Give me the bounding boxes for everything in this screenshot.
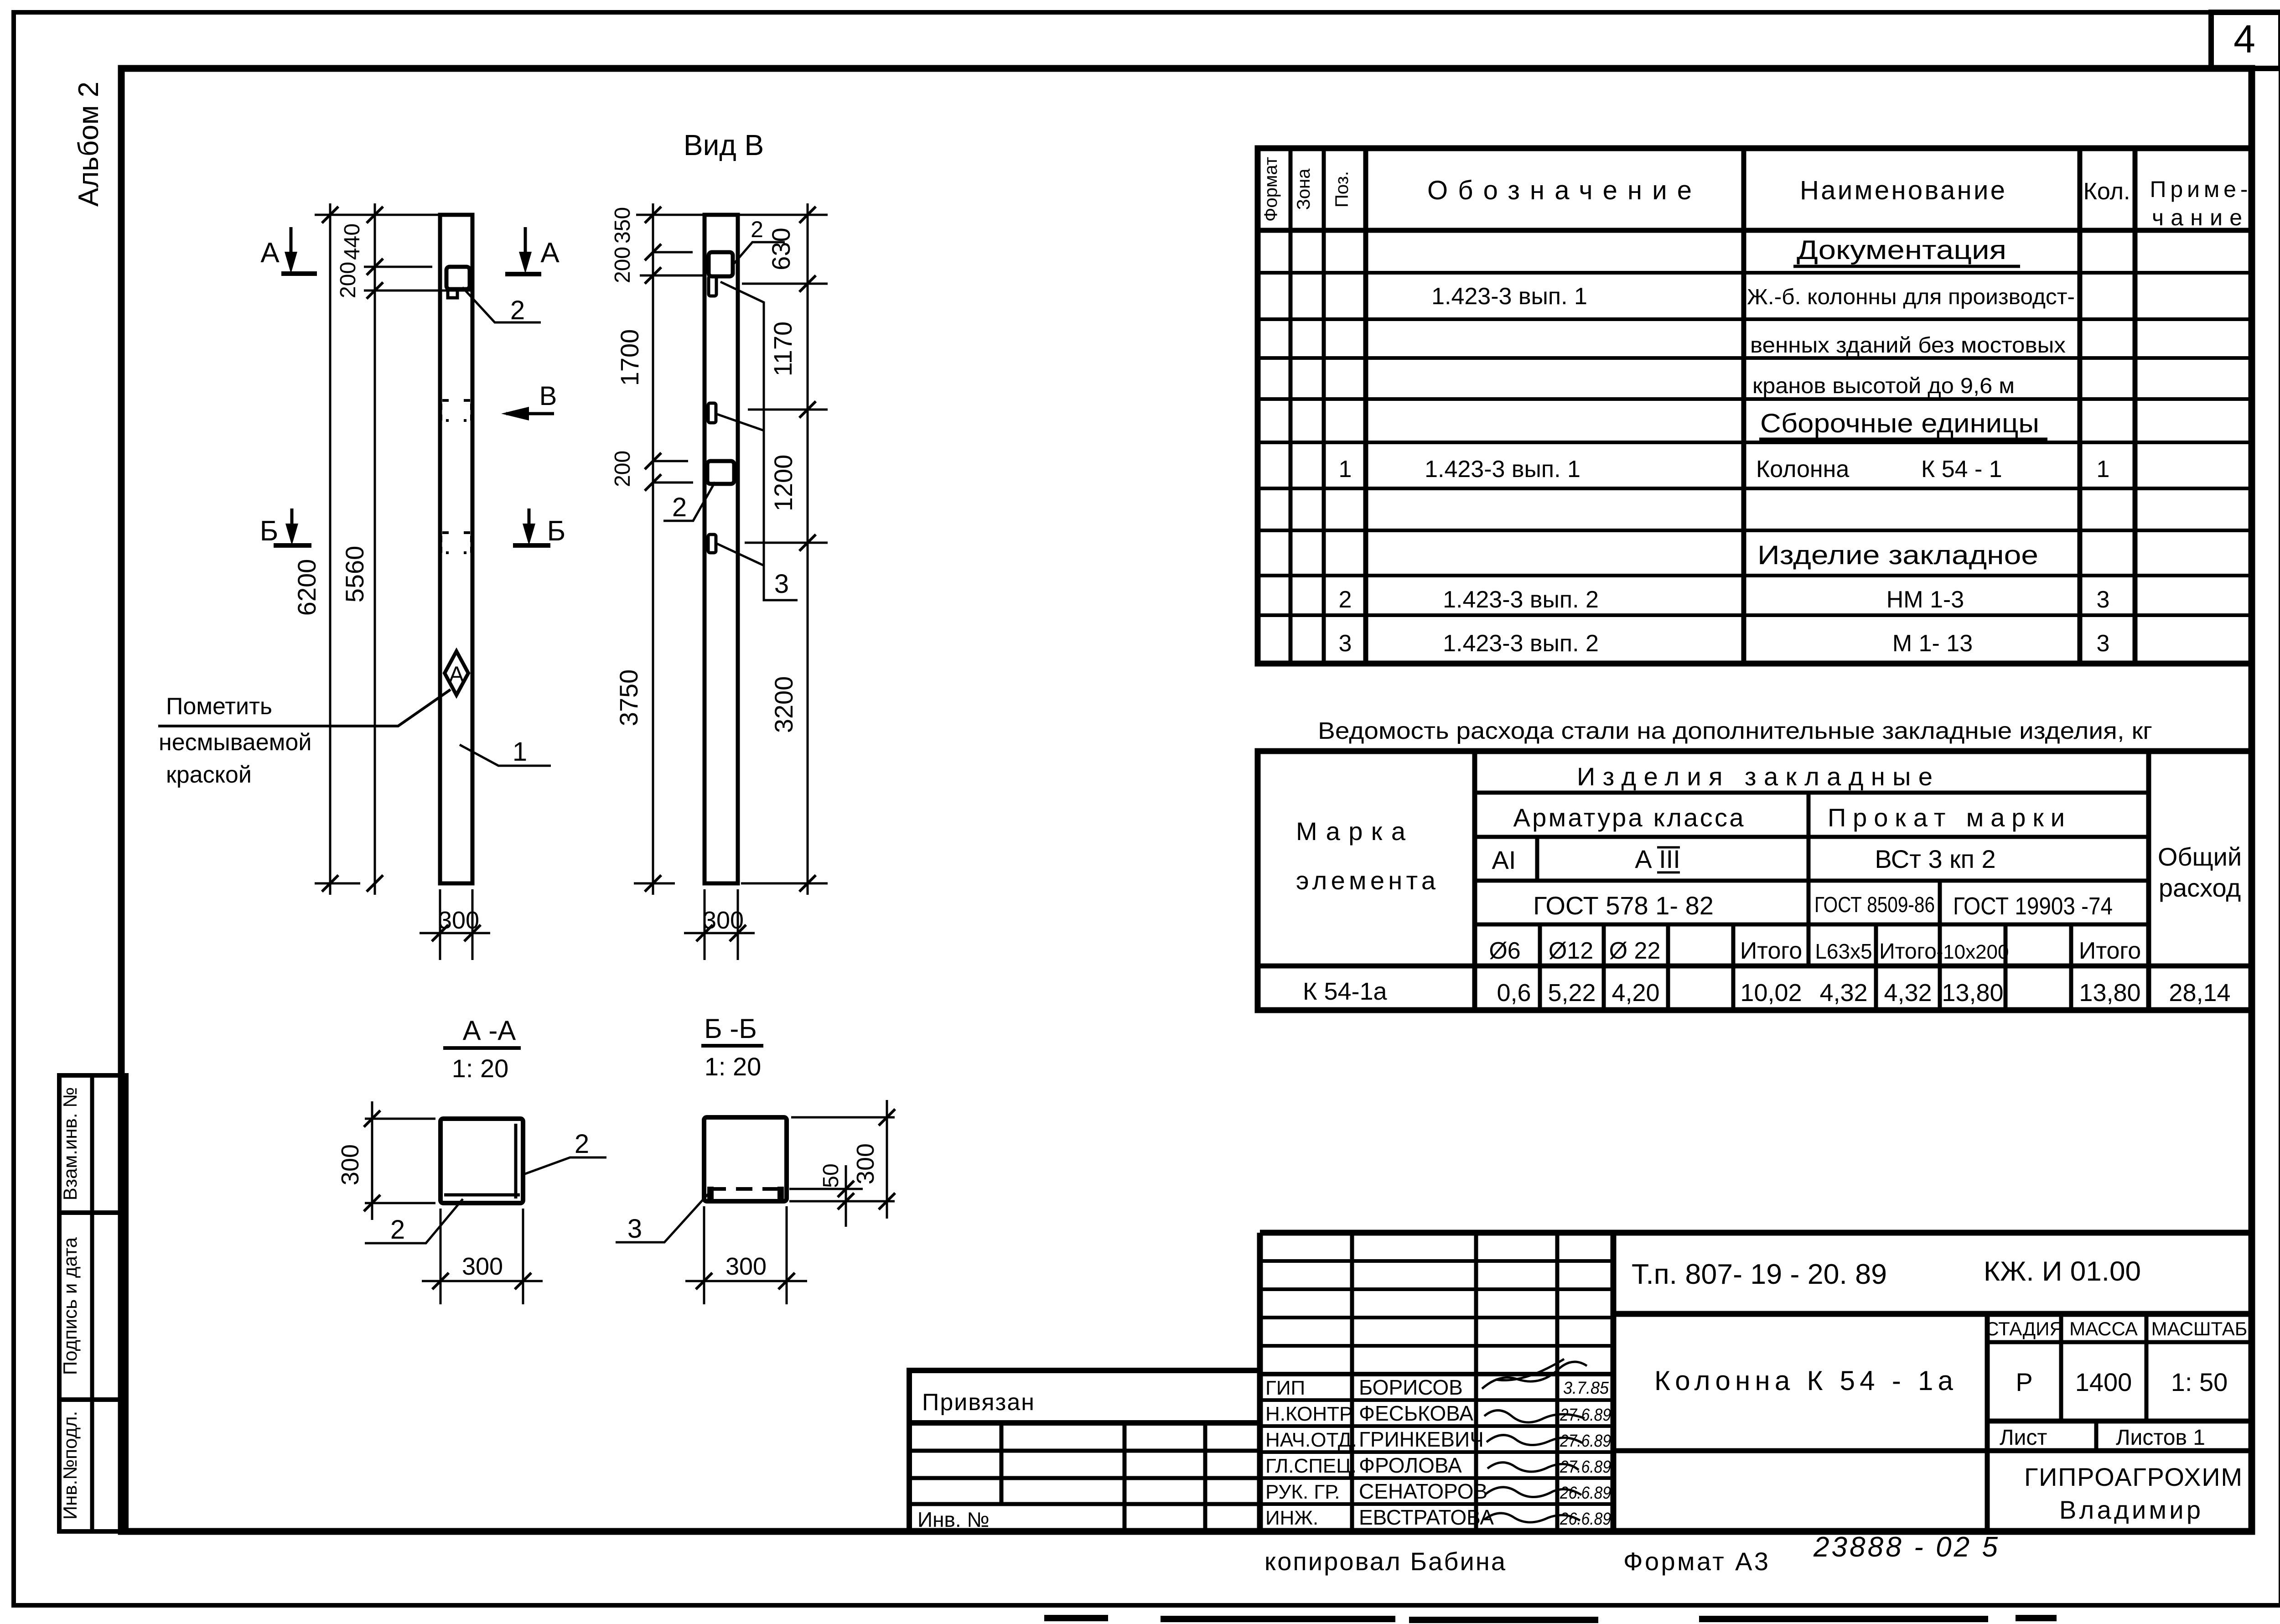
svg-text:6200: 6200 xyxy=(292,559,321,616)
svg-text:Наименование: Наименование xyxy=(1800,176,2005,205)
svg-text:МАССА: МАССА xyxy=(2069,1318,2138,1339)
svg-text:200: 200 xyxy=(336,262,360,298)
svg-text:ГИП: ГИП xyxy=(1265,1377,1305,1399)
svg-text:3: 3 xyxy=(627,1214,642,1244)
main divider xyxy=(1611,1233,1617,1531)
svg-text:3: 3 xyxy=(774,569,789,599)
svg-text:27.6.89: 27.6.89 xyxy=(1560,1458,1611,1477)
long leader line to label 3 xyxy=(720,282,798,600)
svg-text:3: 3 xyxy=(2097,586,2110,613)
B-B leader label 3 xyxy=(616,1194,708,1242)
svg-text:ГОСТ 578 1- 82: ГОСТ 578 1- 82 xyxy=(1533,891,1714,920)
B-B right dim line 300 xyxy=(886,1100,888,1219)
svg-text:300: 300 xyxy=(852,1143,879,1184)
bottom width dim line 300 xyxy=(420,932,490,934)
obshchiy raskhod divider xyxy=(2146,751,2151,1010)
svg-text:К 54-1а: К 54-1а xyxy=(1303,978,1388,1005)
svg-text:А: А xyxy=(540,237,560,269)
quality mark diamond A xyxy=(158,651,468,726)
bottom width extension lines xyxy=(439,889,441,960)
B-B bottom dim line 300 xyxy=(685,1280,807,1282)
svg-text:Листов 1: Листов 1 xyxy=(2116,1426,2205,1450)
tick top 5560 xyxy=(367,207,383,223)
B-B 50 dim line xyxy=(845,1165,847,1227)
svg-text:Формат: Формат xyxy=(1261,157,1281,222)
B-B right extension lines xyxy=(791,1116,895,1119)
tick 440 xyxy=(367,259,383,275)
header line AI AIII xyxy=(1475,879,2149,883)
leader to label 1 xyxy=(460,745,551,766)
top dimension line xyxy=(315,214,474,216)
data row top line xyxy=(1258,964,2251,969)
strip divider vertical xyxy=(90,1075,94,1531)
mark 350 xyxy=(653,251,693,254)
angle plate horizontal leg A-A xyxy=(444,1193,520,1197)
strip divider 1 xyxy=(59,1210,126,1215)
svg-text:4,32: 4,32 xyxy=(1819,979,1867,1007)
svg-text:МАСШТАБ: МАСШТАБ xyxy=(2151,1318,2248,1339)
spec col oboznachenie xyxy=(1741,148,1746,664)
svg-text:1.423-3 вып. 2: 1.423-3 вып. 2 xyxy=(1443,630,1599,657)
spec col poz xyxy=(1363,148,1368,664)
svg-text:расход: расход xyxy=(2159,873,2241,902)
leader to label 2 xyxy=(462,287,541,322)
tick 200 xyxy=(367,282,383,299)
svg-text:ГОСТ 8509-86: ГОСТ 8509-86 xyxy=(1814,893,1935,917)
svg-text:5,22: 5,22 xyxy=(1548,979,1596,1007)
left margin strip xyxy=(59,1075,126,1531)
embedded plate 2 mid view2 xyxy=(707,461,734,484)
mark line 200 xyxy=(364,290,472,292)
paint note text xyxy=(159,693,311,788)
svg-text:краской: краской xyxy=(166,762,252,788)
svg-text:несмываемой: несмываемой xyxy=(159,729,311,756)
svg-text:50: 50 xyxy=(819,1163,843,1188)
svg-text:Итого: Итого xyxy=(2079,938,2141,964)
spec row lines xyxy=(1258,271,2252,275)
svg-text:Ø 22: Ø 22 xyxy=(1609,938,1661,964)
bottom dimension line xyxy=(315,882,360,885)
svg-text:А III: А III xyxy=(1635,845,1680,873)
hidden plate marks upper pair xyxy=(441,400,472,420)
A-A leader label 2 lower xyxy=(365,1199,463,1243)
svg-text:Документация: Документация xyxy=(1797,235,2006,265)
A-A left extension lines xyxy=(365,1118,435,1120)
svg-text:ГИПРОАГРОХИМ: ГИПРОАГРОХИМ xyxy=(2024,1463,2242,1491)
svg-text:1: 1 xyxy=(1339,456,1352,483)
svg-text:1: 1 xyxy=(513,737,527,767)
small plate mid2 xyxy=(708,534,716,553)
svg-text:0,6: 0,6 xyxy=(1497,979,1531,1007)
tick top right xyxy=(799,207,816,223)
svg-text:1200: 1200 xyxy=(769,455,798,512)
dimension line 5560 vertical xyxy=(374,203,376,895)
svg-text:1: 20: 1: 20 xyxy=(705,1052,762,1081)
revision grid verticals xyxy=(1350,1233,1354,1531)
svg-text:1170: 1170 xyxy=(768,322,797,376)
section A-A square xyxy=(440,1119,523,1203)
svg-text:Изделие закладное: Изделие закладное xyxy=(1757,540,2038,570)
A-A left dim line 300 xyxy=(371,1101,373,1220)
svg-text:Р: Р xyxy=(2016,1368,2032,1396)
dimension line left vertical xyxy=(652,203,654,895)
svg-text:А: А xyxy=(449,662,464,687)
svg-text:2: 2 xyxy=(672,493,687,522)
svg-text:300: 300 xyxy=(462,1253,503,1280)
svg-text:венных зданий без мостовых: венных зданий без мостовых xyxy=(1750,333,2066,358)
svg-text:2: 2 xyxy=(575,1129,589,1159)
plate end mark right xyxy=(777,1187,784,1199)
marka elementa divider xyxy=(1472,751,1477,1010)
svg-text:А -А: А -А xyxy=(463,1015,516,1046)
svg-text:АI: АI xyxy=(1492,846,1516,874)
spec header bottom line xyxy=(1258,228,2252,233)
svg-text:3750: 3750 xyxy=(614,669,643,726)
svg-text:13,80: 13,80 xyxy=(2079,979,2140,1007)
svg-text:300: 300 xyxy=(703,907,744,934)
svg-text:28,14: 28,14 xyxy=(2169,979,2230,1007)
svg-text:К 54 - 1: К 54 - 1 xyxy=(1921,456,2002,483)
svg-text:Ведомость расхода стали на доп: Ведомость расхода стали на дополнительны… xyxy=(1318,718,2152,744)
svg-text:Итого: Итого xyxy=(1740,938,1802,964)
svg-text:Ø12: Ø12 xyxy=(1549,938,1593,964)
svg-text:3.7.85: 3.7.85 xyxy=(1563,1379,1609,1398)
svg-text:НМ 1-3: НМ 1-3 xyxy=(1886,586,1964,613)
name cell divider xyxy=(1985,1314,1990,1531)
sheet number box xyxy=(2211,12,2280,68)
leader diag from plate mid2 xyxy=(717,544,764,566)
org cell line xyxy=(1613,1448,2252,1453)
svg-text:Общий: Общий xyxy=(2158,842,2242,871)
svg-text:2: 2 xyxy=(751,217,763,242)
mark 1200 right xyxy=(745,542,828,544)
list row xyxy=(1987,1419,2252,1424)
A-A bottom dim line 300 xyxy=(422,1280,543,1282)
hidden plate marks lower pair xyxy=(441,533,472,553)
svg-text:А: А xyxy=(260,237,280,269)
svg-text:1: 1 xyxy=(2097,456,2110,483)
svg-text:Зона: Зона xyxy=(1294,168,1314,210)
svg-text:350: 350 xyxy=(611,207,635,244)
header line izdeliya xyxy=(1475,791,2149,795)
svg-text:КЖ. И 01.00: КЖ. И 01.00 xyxy=(1984,1256,2141,1287)
svg-text:Т.п. 807- 19 - 20. 89: Т.п. 807- 19 - 20. 89 xyxy=(1632,1259,1887,1290)
revision rows xyxy=(1260,1259,1613,1263)
header line armatura/prokat xyxy=(1475,835,2149,839)
svg-text:3: 3 xyxy=(2097,630,2110,657)
divider armatura/prokat xyxy=(1807,793,1811,966)
embedded plate 2 top view2 xyxy=(709,252,733,276)
line under number cell xyxy=(1613,1311,2252,1317)
svg-text:копировал Бабина: копировал Бабина xyxy=(1264,1547,1506,1576)
tick top 6200 xyxy=(322,207,338,223)
column K54-1a front view body xyxy=(440,215,472,883)
svg-text:Приме-: Приме- xyxy=(2150,176,2248,202)
handwritten signatures xyxy=(1482,1359,1587,1522)
svg-text:200: 200 xyxy=(611,247,635,283)
svg-text:Ж.-б. колонны для производст-: Ж.-б. колонны для производст- xyxy=(1747,285,2075,309)
svg-text:300: 300 xyxy=(337,1144,364,1185)
bottom marks view2 xyxy=(634,882,675,885)
strip divider 2 xyxy=(59,1397,126,1402)
svg-text:Обозначение: Обозначение xyxy=(1427,176,1692,205)
angle plate vertical leg A-A xyxy=(514,1124,518,1199)
section arrow A left xyxy=(260,227,317,274)
svg-text:НАЧ.ОТД.: НАЧ.ОТД. xyxy=(1265,1429,1357,1451)
svg-text:ГОСТ 19903 -74: ГОСТ 19903 -74 xyxy=(1953,892,2113,920)
svg-text:4,20: 4,20 xyxy=(1612,979,1659,1007)
svg-text:3200: 3200 xyxy=(769,676,798,733)
section B-B square xyxy=(704,1117,787,1201)
svg-text:300: 300 xyxy=(438,907,479,934)
svg-text:-10x200: -10x200 xyxy=(1936,941,2009,963)
svg-text:ВСт 3 кп 2: ВСт 3 кп 2 xyxy=(1875,845,1995,873)
divider AI/AIII xyxy=(1535,837,1539,881)
mark line 440 xyxy=(364,266,432,268)
A-A leader label 2 upper xyxy=(521,1157,606,1175)
svg-text:26.6.89: 26.6.89 xyxy=(1560,1510,1611,1529)
signature dates xyxy=(1560,1379,1611,1529)
svg-text:1400: 1400 xyxy=(2075,1368,2132,1396)
svg-text:Инв.№подл.: Инв.№подл. xyxy=(59,1411,81,1520)
svg-text:М 1- 13: М 1- 13 xyxy=(1892,630,1973,657)
svg-text:СТАДИЯ: СТАДИЯ xyxy=(1985,1318,2063,1339)
svg-text:1: 50: 1: 50 xyxy=(2171,1368,2228,1396)
svg-text:В: В xyxy=(539,381,557,411)
svg-text:кранов высотой до 9,6 м: кранов высотой до 9,6 м xyxy=(1752,374,2015,398)
svg-text:Изделия закладные: Изделия закладные xyxy=(1577,762,1933,791)
svg-text:1: 20: 1: 20 xyxy=(452,1054,509,1083)
title block top edge xyxy=(1260,1230,2252,1236)
B-B bottom extension lines xyxy=(703,1206,705,1304)
svg-text:26.6.89: 26.6.89 xyxy=(1560,1484,1611,1503)
svg-text:Вид В: Вид В xyxy=(684,129,764,161)
A-A bottom extension lines xyxy=(440,1209,442,1304)
svg-text:2: 2 xyxy=(510,296,525,325)
tick bottom 6200 xyxy=(322,875,338,892)
svg-text:элемента: элемента xyxy=(1296,866,1436,895)
svg-text:10,02: 10,02 xyxy=(1740,979,1802,1007)
svg-text:Сборочные единицы: Сборочные единицы xyxy=(1760,409,2039,438)
top dimension line view2 xyxy=(636,214,828,216)
column side view body xyxy=(705,215,738,883)
leader to label 2 mid xyxy=(663,482,715,521)
leader to label 2 top xyxy=(733,242,785,265)
svg-text:ФЕСЬКОВА: ФЕСЬКОВА xyxy=(1359,1401,1473,1425)
svg-text:4: 4 xyxy=(2233,17,2255,61)
svg-text:27.6.89: 27.6.89 xyxy=(1560,1406,1611,1425)
spec col primechanie xyxy=(2133,148,2138,664)
svg-text:Взам.инв. №: Взам.инв. № xyxy=(59,1087,81,1201)
spec col kol xyxy=(2078,148,2083,664)
mark 1170 right xyxy=(748,409,828,411)
svg-text:1.423-3 вып. 1: 1.423-3 вып. 1 xyxy=(1431,283,1587,310)
svg-text:13,80: 13,80 xyxy=(1942,979,2003,1007)
B-B 50 extension lines xyxy=(789,1188,863,1190)
dimension line right vertical xyxy=(807,203,809,895)
svg-text:4,32: 4,32 xyxy=(1884,979,1932,1007)
tick top left xyxy=(645,207,661,223)
svg-text:Пометить: Пометить xyxy=(166,693,272,720)
spec col zona xyxy=(1322,148,1326,664)
mark 630 right xyxy=(742,283,828,285)
svg-text:Альбом 2: Альбом 2 xyxy=(73,82,104,207)
svg-text:РУК. ГР.: РУК. ГР. xyxy=(1265,1481,1340,1503)
svg-text:СЕНАТОРОВ: СЕНАТОРОВ xyxy=(1359,1479,1487,1503)
svg-text:Лист: Лист xyxy=(2000,1426,2047,1450)
svg-text:1.423-3 вып. 1: 1.423-3 вып. 1 xyxy=(1425,456,1580,483)
privyazan box xyxy=(909,1370,1260,1423)
small col dividers xyxy=(1538,924,1542,1010)
title block left edge xyxy=(1257,1233,1263,1531)
svg-text:Колонна: Колонна xyxy=(1756,456,1849,483)
svg-text:ГРИНКЕВИЧ: ГРИНКЕВИЧ xyxy=(1359,1427,1484,1451)
specification table outline xyxy=(1258,148,2252,664)
section arrow A right xyxy=(505,227,560,274)
spec col format xyxy=(1289,148,1293,664)
svg-text:Б: Б xyxy=(547,515,566,547)
mark 200 middle xyxy=(653,460,688,462)
left grid rows xyxy=(909,1449,1260,1453)
svg-text:27.6.89: 27.6.89 xyxy=(1560,1432,1611,1451)
svg-text:2: 2 xyxy=(1339,586,1352,613)
svg-text:5560: 5560 xyxy=(340,546,369,603)
svg-text:L63x5: L63x5 xyxy=(1815,939,1872,963)
svg-text:Кол.: Кол. xyxy=(2083,178,2130,205)
svg-text:300: 300 xyxy=(725,1253,767,1280)
svg-text:Н.КОНТР.: Н.КОНТР. xyxy=(1265,1403,1354,1425)
section arrow B right xyxy=(513,508,565,547)
hidden plate line B-B xyxy=(710,1187,782,1191)
scan artifact dashes bottom xyxy=(1044,1618,2057,1620)
svg-text:ИНЖ.: ИНЖ. xyxy=(1265,1507,1318,1529)
svg-text:2: 2 xyxy=(390,1215,405,1245)
bottom width dim line 300 view2 xyxy=(684,932,755,934)
leader diag from plate mid1 xyxy=(717,414,764,431)
dimension line 6200 vertical xyxy=(329,203,332,895)
svg-text:Итого: Итого xyxy=(1879,939,1937,964)
svg-text:Б: Б xyxy=(260,515,279,547)
svg-text:ЕВСТРАТОВА: ЕВСТРАТОВА xyxy=(1359,1505,1494,1529)
signature labels xyxy=(1265,1377,1357,1529)
svg-text:Поз.: Поз. xyxy=(1332,171,1352,208)
view arrow V xyxy=(501,381,557,420)
left grid verticals xyxy=(1000,1423,1004,1504)
svg-text:ФРОЛОВА: ФРОЛОВА xyxy=(1359,1453,1462,1477)
left grid bottom edge xyxy=(907,1423,912,1531)
mark 200 xyxy=(640,275,705,277)
small plate mid1 xyxy=(708,403,716,423)
bottom width extension lines view2 xyxy=(704,889,706,960)
svg-text:1700: 1700 xyxy=(615,329,644,386)
hook plate below xyxy=(709,276,716,296)
divider GOST8509/GOST19903 xyxy=(1938,881,1942,924)
section arrow B left xyxy=(260,508,311,547)
svg-text:Ø6: Ø6 xyxy=(1489,938,1520,964)
inner top line extension to outer right xyxy=(2252,66,2280,71)
svg-text:1.423-3 вып. 2: 1.423-3 вып. 2 xyxy=(1443,586,1599,613)
plate end mark left xyxy=(707,1187,714,1199)
svg-text:630: 630 xyxy=(767,228,795,270)
header line GOST xyxy=(1475,923,2149,927)
tick bottom 5560 xyxy=(367,875,383,892)
svg-text:БОРИСОВ: БОРИСОВ xyxy=(1359,1375,1463,1399)
svg-text:200: 200 xyxy=(611,451,635,487)
embedded plate 2 top xyxy=(446,267,470,289)
signature names xyxy=(1359,1375,1494,1529)
plate notch below xyxy=(448,289,457,298)
svg-text:440: 440 xyxy=(340,223,364,260)
svg-text:Инв. №: Инв. № xyxy=(917,1508,990,1531)
svg-text:Подпись и дата: Подпись и дата xyxy=(59,1237,81,1375)
svg-text:Привязан: Привязан xyxy=(922,1389,1035,1416)
svg-text:3: 3 xyxy=(1339,630,1352,657)
svg-text:Б -Б: Б -Б xyxy=(704,1013,757,1044)
signature rows xyxy=(1260,1398,1613,1402)
steel table outline xyxy=(1258,751,2251,1010)
svg-text:ГЛ.СПЕЦ.: ГЛ.СПЕЦ. xyxy=(1265,1455,1357,1477)
stadiya massa masshtab header xyxy=(1987,1340,2252,1344)
